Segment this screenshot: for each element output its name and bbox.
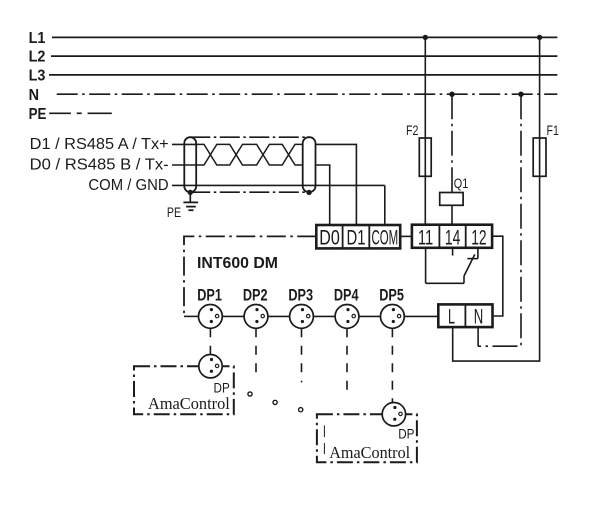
cable shield right ferrule xyxy=(303,137,316,192)
fuse F2 xyxy=(419,138,431,176)
wire terminal 12 to terminal block L N xyxy=(492,236,503,316)
wire Tx- to D0 terminal xyxy=(316,165,330,225)
twisted pair wire B xyxy=(196,144,303,165)
AmaControl unit 1 border xyxy=(134,366,234,414)
svg-text:D0 / RS485 B / Tx-: D0 / RS485 B / Tx- xyxy=(30,157,169,174)
svg-text:DP1: DP1 xyxy=(197,286,222,305)
cable shield bottom line xyxy=(190,191,309,193)
svg-text:DP2: DP2 xyxy=(243,286,268,305)
junction N-return xyxy=(518,92,523,97)
node continuation dot 3 xyxy=(299,408,303,412)
junction N-Q1 xyxy=(449,92,454,97)
wire COM block to 11 block xyxy=(400,235,412,237)
terminal block D0 D1 COM xyxy=(316,225,400,248)
wire DP5 drop xyxy=(391,328,393,402)
wire N bus xyxy=(57,93,558,95)
wire DP4 drop xyxy=(346,328,348,393)
junction L1-F2 xyxy=(423,35,428,40)
AmaControl unit 2 border xyxy=(317,414,417,462)
svg-text:D1: D1 xyxy=(347,227,366,250)
svg-text:L1: L1 xyxy=(29,30,46,47)
svg-text:DP4: DP4 xyxy=(334,286,359,305)
svg-text:L2: L2 xyxy=(29,49,46,66)
connector DP4 xyxy=(335,305,359,329)
wire N return to terminal N xyxy=(478,94,521,346)
svg-text:F2: F2 xyxy=(406,122,419,138)
wire PE bus xyxy=(49,112,112,114)
svg-text:PE: PE xyxy=(29,106,47,123)
svg-text:INT600 DM: INT600 DM xyxy=(197,255,278,272)
terminal block 11 14 12 xyxy=(412,225,492,248)
junction shield right xyxy=(306,190,311,195)
wire DP3 drop xyxy=(301,328,303,382)
twisted pair wire A xyxy=(196,144,303,165)
ground PE symbol xyxy=(183,202,198,210)
wire shield to ground xyxy=(189,192,191,202)
cable shield left ferrule xyxy=(184,137,196,192)
relay changeover contact of Q1 xyxy=(426,248,478,283)
svg-text:DP5: DP5 xyxy=(379,286,404,305)
svg-text:AmaControl: AmaControl xyxy=(329,443,410,462)
wire coil Q1 to terminal 14 xyxy=(451,205,453,224)
wire D0 Tx- xyxy=(172,164,196,166)
junction shield left xyxy=(188,190,193,195)
wire L3 bus xyxy=(49,74,557,76)
svg-text:D1 / RS485 A / Tx+: D1 / RS485 A / Tx+ xyxy=(30,136,169,153)
cable shield top line xyxy=(190,136,309,138)
node continuation dot 2 xyxy=(273,400,277,404)
INT600 DM enclosure border xyxy=(184,236,316,316)
svg-text:COM / GND: COM / GND xyxy=(88,177,168,194)
svg-text:DP3: DP3 xyxy=(288,286,313,305)
connector DP2 xyxy=(244,305,268,329)
svg-text:AmaControl: AmaControl xyxy=(148,394,230,413)
connector DP1 xyxy=(199,305,223,329)
wire D1 Tx+ xyxy=(172,143,196,145)
svg-text:11: 11 xyxy=(418,226,433,249)
node continuation dot 1 xyxy=(248,392,252,396)
coil Q1 xyxy=(440,193,463,206)
connector DP5 xyxy=(381,305,405,329)
svg-text:F1: F1 xyxy=(547,122,560,138)
wire GND to COM terminal xyxy=(384,185,386,225)
wire N to coil Q1 xyxy=(451,94,453,192)
terminal block L N xyxy=(438,304,492,327)
svg-text:N: N xyxy=(29,87,39,104)
wire L1 to fuse F2 to terminal 11 xyxy=(424,37,426,224)
wire L1 bus xyxy=(52,36,557,38)
svg-text:Q1: Q1 xyxy=(454,175,469,191)
junction L1-F1 xyxy=(537,35,542,40)
svg-text:DP: DP xyxy=(398,427,414,442)
svg-text:PE: PE xyxy=(167,204,181,220)
wire N stub xyxy=(477,327,479,346)
connector DP3 xyxy=(290,305,314,329)
wire DP bus xyxy=(184,315,438,317)
connector DP on AmaControl 2 xyxy=(382,403,405,426)
connector DP on AmaControl 1 xyxy=(199,355,222,378)
wire COM GND xyxy=(172,184,385,186)
svg-text:14: 14 xyxy=(445,226,461,249)
wire L2 bus xyxy=(51,55,557,57)
wire L1 to fuse F1 to terminal L xyxy=(453,37,540,361)
svg-text:L: L xyxy=(448,305,455,328)
fuse F1 xyxy=(533,138,546,176)
wire inner dashed mark unit 2 xyxy=(323,425,325,454)
wire DP2 drop xyxy=(255,328,257,373)
svg-text:L3: L3 xyxy=(29,68,46,85)
wire DP1 drop xyxy=(209,328,211,354)
wire Tx+ to D1 terminal xyxy=(316,144,357,225)
svg-text:N: N xyxy=(474,305,484,328)
svg-text:D0: D0 xyxy=(319,227,340,250)
svg-text:12: 12 xyxy=(471,226,486,249)
svg-text:COM: COM xyxy=(371,227,398,250)
